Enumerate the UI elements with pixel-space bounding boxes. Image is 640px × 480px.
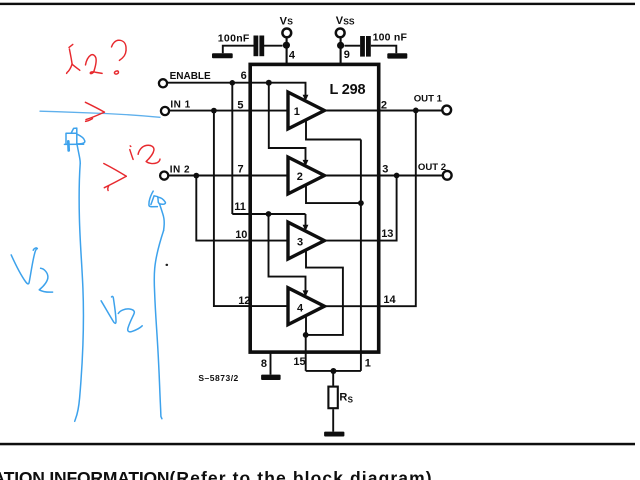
wire enable-B to amp 3 gate (305, 214, 307, 226)
IC U1 L298 outline (250, 64, 379, 352)
node sense B join (303, 332, 309, 338)
wire amp 2 sense (306, 185, 361, 203)
svg-text:L 298: L 298 (330, 82, 366, 98)
svg-text:4: 4 (289, 50, 296, 62)
stray ink speck (166, 264, 169, 266)
node OUT2 junction (394, 173, 400, 179)
svg-text:10: 10 (235, 229, 247, 241)
wire bus to resistor RS (332, 371, 334, 386)
annotation blue handwritten V2 (101, 296, 142, 331)
wire IN2 to pin 7 / amp 2 input (169, 175, 288, 177)
wire VS node to C1 (264, 45, 283, 47)
power terminal VS (280, 15, 294, 37)
svg-text:100nF: 100nF (218, 33, 250, 45)
svg-text:3: 3 (382, 163, 388, 175)
wire amp 2 output to OUT2 (324, 175, 443, 177)
annotation red arrow 2 with i2 (104, 145, 160, 190)
arrow into amp 1 (303, 95, 309, 102)
amplifier 2 (288, 157, 324, 194)
annotation red handwritten i2? (67, 40, 126, 74)
svg-text:OUT 1: OUT 1 (414, 94, 443, 105)
resistor RS (328, 387, 353, 409)
annotation blue probe stroke 1 (75, 164, 84, 422)
output terminal OUT2 (418, 162, 452, 180)
svg-text:S: S (348, 395, 354, 404)
annotations: red pen (67, 40, 160, 190)
svg-text:3: 3 (297, 237, 303, 249)
wire VSS node to C2 (345, 45, 361, 47)
svg-text:12: 12 (238, 295, 250, 307)
node IN2 branch (193, 173, 199, 179)
wire RS to ground (332, 409, 334, 431)
node OUT1 junction (413, 108, 419, 114)
svg-text:8: 8 (261, 358, 267, 370)
node VSS junction (337, 42, 344, 49)
svg-text:2: 2 (381, 99, 387, 111)
svg-text:S: S (287, 17, 293, 27)
svg-text:7: 7 (238, 164, 244, 176)
svg-text:1: 1 (294, 106, 300, 118)
annotation blue flag marker 2 (149, 191, 166, 230)
input terminal IN2 (160, 164, 190, 179)
wire OUT2 down to pin 13 (324, 176, 396, 241)
wire IN2 down to pin 10 / amp 3 input (196, 176, 287, 241)
wire sense B down to pin 15 (305, 335, 307, 371)
svg-text:9: 9 (344, 49, 350, 61)
svg-text:11: 11 (234, 201, 246, 213)
arrow into amp 4 (303, 290, 309, 297)
svg-text:100 nF: 100 nF (373, 32, 408, 44)
wire VS to pin 4 (286, 38, 288, 65)
annotations: blue pen (11, 111, 165, 421)
svg-text:1: 1 (365, 358, 371, 370)
capacitor C2 100nF (360, 32, 407, 57)
amplifier 4 (288, 288, 324, 325)
svg-text:R: R (339, 391, 347, 403)
wire C2 to ground (371, 46, 397, 54)
node ENABLE branch (230, 80, 236, 86)
input terminal ENABLE (159, 71, 211, 87)
wire IN1 down to pin 12 / amp 4 input (214, 111, 287, 307)
amplifier 3 (288, 222, 324, 259)
svg-text:6: 6 (241, 70, 247, 82)
svg-text:ENABLE: ENABLE (170, 71, 211, 82)
ground (C2) (387, 53, 407, 58)
wire VSS to pin 9 (340, 38, 342, 65)
svg-text:OUT 2: OUT 2 (418, 162, 446, 173)
wire C1 to ground (223, 46, 254, 54)
wire sense bus (306, 370, 361, 372)
capacitor C1 100nF (218, 33, 264, 57)
svg-text:4: 4 (297, 303, 304, 315)
wire bottom rule (0, 443, 635, 446)
node sense bus junction (330, 368, 336, 374)
wire OUT1 down to pin 14 (324, 110, 415, 306)
node sense A join (358, 200, 364, 206)
svg-text:APPLICATION INFORMATION: APPLICATION INFORMATION (0, 468, 169, 480)
svg-text:IN 1: IN 1 (170, 100, 190, 111)
ground (pin 8) (261, 375, 281, 380)
node VS junction (283, 42, 290, 49)
svg-text:SS: SS (343, 16, 355, 26)
svg-text:IN 2: IN 2 (170, 164, 190, 175)
svg-text:13: 13 (381, 228, 393, 240)
wire pin 11 rail (232, 213, 305, 215)
annotation blue handwritten V1 (11, 248, 52, 292)
amplifier 1 (288, 92, 324, 129)
wire IN1 to pin 5 / amp 1 input (169, 110, 287, 112)
wire amp 1 sense (306, 120, 361, 140)
wire enable-B to amp 4 gate (269, 214, 306, 291)
power terminal VSS (336, 15, 355, 38)
node IN1 branch (211, 108, 217, 114)
annotation blue probe line to IN1 (40, 111, 160, 117)
svg-text:(Refer to the block diagram): (Refer to the block diagram) (170, 468, 433, 480)
annotation blue flag marker 1 (64, 128, 84, 163)
svg-text:S–5873/2: S–5873/2 (198, 373, 238, 383)
ground (RS) (324, 432, 344, 437)
arrow into amp 3 (303, 225, 309, 232)
wire enable-A to amp 2 gate (269, 83, 306, 161)
node enable-A branch (266, 80, 272, 86)
wire top border rule (0, 3, 635, 5)
annotation blue probe stroke 2 (154, 231, 163, 419)
wire amp 4 sense (305, 316, 307, 335)
wire pin 8 to ground (270, 352, 272, 375)
node enable-B branch (266, 211, 272, 217)
svg-text:14: 14 (383, 294, 396, 306)
input terminal IN1 (161, 100, 191, 116)
wire ENABLE down to pin 11 (231, 83, 233, 214)
ground (C1) (212, 53, 233, 58)
svg-text:2: 2 (297, 171, 303, 183)
wire sense A down to pin 1 (360, 140, 362, 371)
svg-text:15: 15 (293, 356, 305, 368)
annotation red arrow 1 (85, 102, 104, 121)
wire enable-A to amp 1 gate (269, 83, 306, 96)
wire amp 3 sense (306, 250, 343, 335)
wire ENABLE to pin 6 (167, 82, 268, 84)
svg-text:5: 5 (237, 99, 243, 111)
arrow into amp 2 (303, 160, 309, 167)
output terminal OUT1 (414, 94, 451, 115)
wire amp 1 output to OUT1 (324, 110, 442, 112)
